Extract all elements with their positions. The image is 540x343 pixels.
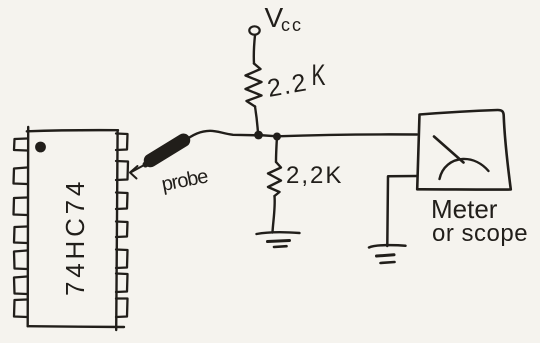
- probe tip: [146, 160, 154, 165]
- wire: R2 to ground: [273, 196, 275, 233]
- meter box M1: [417, 110, 511, 190]
- IC left pin 5: [14, 251, 27, 270]
- svg-text:2,2K: 2,2K: [286, 162, 343, 189]
- IC pin-1 marker dot: [35, 142, 46, 153]
- meter scale arc: [440, 159, 489, 179]
- wire: meter to ground: [387, 176, 417, 246]
- IC left pin 7: [14, 300, 27, 318]
- node B junction dot: [273, 133, 281, 141]
- svg-text:K: K: [312, 60, 326, 92]
- resistor R2 2.2K: [268, 162, 281, 196]
- wire: node A to node B: [258, 135, 277, 136]
- IC right pin 8: [116, 299, 128, 318]
- IC right pin 10: [116, 250, 128, 269]
- wire: node B to meter: [277, 134, 417, 136]
- svg-text:or scope: or scope: [432, 220, 528, 247]
- IC right pin 12: [116, 193, 128, 210]
- wire: R1 to node A: [255, 107, 258, 134]
- wire: probe to node A: [184, 131, 258, 142]
- probe arrow: [130, 164, 146, 179]
- Vcc terminal: [249, 26, 259, 34]
- meter needle: [434, 137, 464, 163]
- IC left pin 2: [14, 168, 28, 185]
- ground below meter: [369, 245, 406, 263]
- node A junction dot: [254, 131, 263, 140]
- IC right pin 11: [116, 222, 128, 238]
- IC left pin 3: [14, 198, 28, 216]
- wire: Vcc to R1: [254, 35, 255, 64]
- IC left pin 6: [14, 277, 27, 295]
- resistor R1 2.2K: [246, 64, 262, 107]
- svg-text:cc: cc: [281, 15, 303, 35]
- IC right pin 14: [116, 134, 128, 151]
- wire: node B to R2: [276, 137, 277, 163]
- ground below R2: [257, 232, 300, 247]
- IC right pin 9: [116, 274, 128, 293]
- IC U1 74HC74 body: [27, 127, 124, 330]
- probe body: [151, 140, 184, 160]
- IC left pin 1: [14, 139, 27, 151]
- svg-text:74HC74: 74HC74: [60, 178, 90, 296]
- IC left pin 4: [14, 227, 27, 244]
- IC right pin 13: [116, 161, 128, 180]
